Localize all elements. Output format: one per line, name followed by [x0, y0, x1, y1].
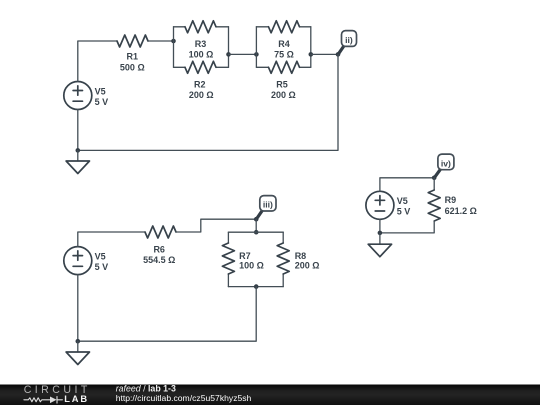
svg-text:R2: R2: [194, 79, 206, 89]
wire left bar of R3/R2 parallel block: [173, 27, 175, 68]
svg-text:LAB: LAB: [64, 394, 89, 404]
svg-text:621.2 Ω: 621.2 Ω: [445, 206, 477, 216]
voltage source V5 (bottom-left circuit): [64, 247, 92, 275]
svg-text:R5: R5: [276, 79, 288, 89]
svg-text:ii): ii): [345, 35, 353, 45]
wire right bar of R4/R5 parallel block: [310, 27, 312, 68]
ground (top-left circuit): [66, 161, 89, 174]
wire bottom branch leads R2: [174, 66, 229, 68]
label R8 200 Ω: [295, 251, 320, 271]
footer logo diode triangle: [50, 397, 57, 404]
svg-text:V5: V5: [95, 86, 106, 96]
wire V5 top to R6: [78, 232, 145, 247]
flag pointer iii: [257, 210, 263, 218]
wire block bottom back to source: [78, 287, 256, 342]
wire node B to node C: [229, 53, 257, 55]
resistor R6: [145, 226, 176, 238]
svg-text:R6: R6: [153, 245, 165, 255]
label V5 value (right circuit): [397, 196, 411, 217]
node B junction dot: [226, 52, 231, 57]
label R1 500 Ω: [120, 52, 145, 73]
wire V5 bottom to return: [77, 110, 79, 151]
label R5 200 Ω: [271, 79, 296, 99]
wire node ii down and back to source: [78, 54, 338, 150]
wire R1 to node A: [148, 40, 174, 42]
wire R6 to node iii: [176, 219, 256, 232]
flag iii): [260, 196, 276, 211]
resistor R9: [428, 190, 440, 221]
label R4 75 Ω: [274, 39, 294, 60]
resistor R7: [222, 243, 234, 274]
wire to ground 1: [77, 150, 79, 161]
node A junction dot: [171, 39, 176, 44]
wire R9 top lead: [433, 178, 435, 190]
resistor R5: [269, 61, 300, 73]
svg-text:R4: R4: [278, 39, 290, 49]
footer bar: [0, 385, 540, 405]
svg-text:R7: R7: [239, 251, 251, 261]
voltage source V5 (right circuit): [366, 191, 394, 219]
label R9 621.2 Ω: [445, 195, 477, 216]
svg-text:R1: R1: [127, 52, 139, 62]
svg-text:200 Ω: 200 Ω: [295, 260, 320, 270]
wire left bar of R4/R5 parallel block: [255, 27, 257, 68]
svg-text:V5: V5: [397, 196, 408, 206]
svg-text:V5: V5: [95, 251, 106, 261]
svg-text:200 Ω: 200 Ω: [271, 90, 296, 100]
svg-text:5 V: 5 V: [95, 97, 109, 107]
svg-text:100 Ω: 100 Ω: [239, 260, 264, 270]
label R6 554.5 Ω: [143, 245, 175, 265]
label R3 100 Ω: [189, 39, 214, 59]
wire top branch leads R4: [256, 26, 310, 28]
wire right bar leads R8: [282, 232, 284, 286]
wire right bar of R3/R2 parallel block: [228, 27, 230, 68]
svg-text:R8: R8: [295, 251, 307, 261]
node iii junction dot: [254, 217, 259, 222]
wire top branch leads R3: [174, 26, 229, 28]
label V5 value (bottom-left circuit): [95, 251, 109, 272]
footer logo resistor-diode symbol: [24, 397, 63, 404]
voltage source V5 (top-left circuit): [64, 82, 92, 110]
svg-text:http://circuitlab.com/cz5u57kh: http://circuitlab.com/cz5u57khyz5sh: [116, 393, 252, 403]
wire V5 bottom to return 3: [379, 219, 381, 233]
node H junction dot: [76, 339, 81, 344]
resistor R4: [269, 21, 300, 33]
label V5 value (top-left circuit): [95, 86, 109, 107]
wire bottom branch of R7/R8 block: [228, 286, 283, 288]
node C junction dot: [254, 52, 259, 57]
wire left bar leads R7: [227, 232, 229, 286]
label R2 200 Ω: [189, 79, 214, 99]
svg-text:R9: R9: [445, 195, 457, 205]
node G junction dot: [254, 284, 259, 289]
resistor R3: [185, 21, 216, 33]
svg-text:iii): iii): [263, 200, 273, 210]
wire node D to node ii: [311, 53, 338, 55]
ground (bottom-left circuit): [66, 352, 89, 365]
node E junction dot: [76, 148, 81, 153]
node iv junction dot: [432, 176, 437, 181]
resistor R2: [185, 61, 216, 73]
flag ii): [342, 31, 357, 47]
svg-text:500 Ω: 500 Ω: [120, 62, 145, 72]
svg-text:5 V: 5 V: [95, 262, 109, 272]
wire bottom branch leads R5: [256, 66, 310, 68]
svg-text:100 Ω: 100 Ω: [189, 50, 214, 60]
svg-text:iv): iv): [441, 158, 451, 168]
node F junction dot: [254, 230, 259, 235]
wire to ground 3: [379, 233, 381, 244]
node I junction dot: [378, 231, 383, 236]
wire node iii to parallel block top: [255, 219, 257, 232]
node ii junction dot: [336, 52, 341, 57]
wire V5 top to R1: [78, 41, 117, 82]
flag pointer iv: [435, 169, 441, 177]
label R7 100 Ω: [239, 251, 264, 271]
wire V5 bottom to return 2: [77, 275, 79, 342]
svg-text:200 Ω: 200 Ω: [189, 90, 214, 100]
node D junction dot: [309, 52, 314, 57]
flag pointer ii: [339, 45, 345, 53]
flag iv): [438, 154, 454, 170]
wire to ground 2: [77, 341, 79, 352]
resistor R1: [117, 35, 148, 47]
wire top branch of R7/R8 block: [228, 231, 283, 233]
svg-text:5 V: 5 V: [397, 207, 411, 217]
svg-text:554.5 Ω: 554.5 Ω: [143, 255, 175, 265]
svg-text:75 Ω: 75 Ω: [274, 50, 294, 60]
ground (right circuit): [368, 244, 391, 257]
wire V5 top to node iv: [380, 178, 434, 192]
resistor R8: [277, 243, 289, 274]
svg-text:R3: R3: [195, 39, 207, 49]
wire R9 bottom lead to return: [380, 221, 434, 233]
